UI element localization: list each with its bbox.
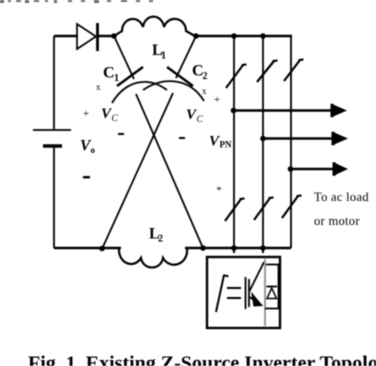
switch S1 upper slash bbox=[226, 64, 247, 88]
svg-text:PN: PN bbox=[220, 140, 232, 150]
output arrow phase 1 tap dot bbox=[231, 108, 237, 114]
output arrow phase 3 tap dot bbox=[288, 166, 294, 172]
antiparallel diode bracket bbox=[265, 265, 279, 309]
IGBT gate bar 2 bbox=[248, 279, 250, 307]
legend box frame bbox=[207, 257, 280, 328]
wire: cross link arc2 cusp to node C bbox=[102, 93, 173, 249]
antiparallel diode triangle bbox=[267, 288, 277, 299]
wire: top rail from source corner to diode anode bbox=[54, 35, 78, 38]
wire: left source branch vertical bbox=[53, 36, 55, 129]
junction dot bottom of leg 2 bbox=[260, 245, 266, 251]
switch S6 lower slash bbox=[282, 195, 302, 218]
switch S4 lower slash bbox=[225, 198, 245, 221]
svg-text:x: x bbox=[202, 86, 207, 96]
wire: battery to bottom rail bbox=[53, 147, 55, 248]
inductor L2 winding bbox=[119, 249, 187, 268]
junction dot bottom of leg 1 bbox=[231, 245, 237, 251]
output arrow phase 2 tap dot bbox=[260, 136, 266, 142]
switch S5 lower slash bbox=[254, 197, 274, 220]
node D junction dot bbox=[200, 245, 206, 251]
antiparallel diode cathode bar bbox=[267, 286, 278, 288]
IGBT emitter lead with arrow bbox=[250, 297, 263, 306]
IGBT collector lead bbox=[250, 262, 265, 291]
svg-text:x: x bbox=[96, 82, 101, 92]
legend switch slash bbox=[216, 275, 229, 312]
IGBT vertical rail (gray) bbox=[264, 259, 266, 326]
svg-text:+: + bbox=[83, 108, 89, 120]
wire: bottom rail left segment bbox=[54, 247, 121, 249]
wire stub below rail leg1 bbox=[233, 249, 235, 253]
svg-text:1: 1 bbox=[161, 51, 166, 62]
inverter leg 3 wire bbox=[290, 36, 292, 248]
output arrow phase 1 bbox=[234, 109, 333, 111]
node A junction dot bbox=[111, 33, 117, 39]
junction dot top of leg 1 bbox=[231, 33, 237, 39]
diode D1 triangle bbox=[77, 24, 96, 49]
battery Vo short plate bbox=[43, 144, 62, 148]
polarity - left mid bbox=[118, 133, 124, 135]
svg-text:o: o bbox=[91, 145, 96, 155]
node B junction dot bbox=[193, 33, 199, 39]
svg-text:2: 2 bbox=[158, 234, 163, 245]
diode D1 cathode bar bbox=[96, 23, 99, 51]
svg-text:Fig. 1. Existing Z-Source Inve: Fig. 1. Existing Z-Source Inverter Topol… bbox=[28, 353, 376, 366]
wire: diode cathode to node A bbox=[98, 35, 116, 38]
inductor L1 winding bbox=[114, 17, 195, 36]
inverter leg 2 wire bbox=[262, 36, 264, 248]
node C junction dot bbox=[99, 246, 105, 252]
output arrow phase 3 bbox=[291, 168, 335, 170]
capacitor C1 curved plate bbox=[112, 82, 167, 103]
svg-text:1: 1 bbox=[114, 73, 119, 84]
wire: top rail node B to inverter legs bbox=[196, 35, 292, 38]
switch S2 upper slash bbox=[257, 60, 278, 82]
polarity - right mid bbox=[179, 137, 185, 139]
output arrow phase 2 bbox=[263, 137, 333, 139]
IGBT gate bar 1 bbox=[245, 277, 247, 309]
legend equals sign bbox=[227, 288, 241, 298]
wire: bottom rail right segment bbox=[185, 247, 291, 249]
svg-text:C: C bbox=[103, 65, 115, 82]
battery Vo long plate bbox=[33, 129, 71, 131]
capacitor C1 straight plate bbox=[117, 67, 143, 86]
svg-text:*: * bbox=[217, 186, 222, 197]
svg-text:2: 2 bbox=[203, 71, 208, 82]
capacitor C2 lead from node B bbox=[176, 36, 196, 78]
capacitor C2 straight plate bbox=[167, 67, 193, 86]
svg-text:+: + bbox=[214, 94, 220, 106]
battery minus sign bbox=[83, 176, 90, 178]
inverter leg 1 wire bbox=[233, 36, 235, 248]
svg-text:To ac load: To ac load bbox=[314, 190, 369, 204]
junction dot top of leg 2 bbox=[260, 33, 266, 39]
stray text remnants (previous line cut off at top) bbox=[0, 0, 153, 3]
capacitor C2 curved plate bbox=[143, 81, 204, 101]
svg-text:C: C bbox=[112, 114, 119, 124]
capacitor C1 lead from node A bbox=[114, 36, 134, 79]
wire: cross link arc1 cusp to node D bbox=[136, 94, 203, 248]
switch S3 upper slash bbox=[284, 59, 304, 81]
svg-text:or motor: or motor bbox=[314, 214, 360, 228]
svg-text:C: C bbox=[197, 115, 204, 125]
wire stub below rail leg2 bbox=[262, 249, 264, 253]
